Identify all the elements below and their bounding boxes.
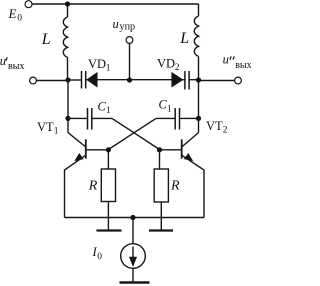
ground bar bottom [120,281,150,284]
wire right base to resistor [159,150,161,169]
node u_upr junction [127,77,132,82]
node right tank [196,77,201,82]
svg-text:VD: VD [157,57,175,71]
node left base [106,147,111,152]
node: coil tap junction on top rail [65,1,70,6]
svg-text:VD: VD [88,57,106,71]
wire cross diagonal left-to-right [112,118,160,149]
varicap VD1 [68,79,81,81]
inductor L (left) [63,17,67,57]
wire source to ground [132,268,134,282]
svg-text:0: 0 [97,252,102,262]
node left C1 junction [65,116,70,121]
wire right coil to tank node [198,56,200,80]
terminal E0 [25,1,32,8]
svg-text:1: 1 [106,64,111,74]
node I0 tap [130,215,135,220]
wire right tank to terminal [199,80,235,82]
wire emitter rail [65,217,205,219]
wire left vertical collector feed [67,80,69,133]
wire top rail [32,3,199,5]
wire left resistor to ground [107,202,109,231]
transistor VT1 [85,139,87,158]
wire u_upr down [129,43,131,80]
terminal u_upr [126,37,133,44]
svg-text:вых: вых [8,61,24,72]
wire cross diagonal right-to-left [108,118,156,149]
svg-text:1: 1 [167,105,172,115]
node right C1 junction [196,116,201,121]
svg-text:VT: VT [37,120,54,134]
capacitor C1 (left) [68,117,87,119]
ground bar left [97,229,122,231]
resistor R (left) [101,169,115,202]
svg-text:VT: VT [206,119,223,133]
inductor L (right) [194,16,198,56]
transistor VT2 [181,139,183,158]
wire u'_vyh to left tank node [36,80,68,82]
svg-text:R: R [170,178,180,193]
svg-text:1: 1 [106,106,111,116]
wire coil to tank node [67,57,69,80]
svg-text:R: R [88,179,98,194]
svg-text:упр: упр [120,22,136,33]
wire right resistor to ground [160,202,162,231]
capacitor C1 (right) [180,117,198,119]
terminal u'_vyh [30,77,37,84]
wire left base to resistor [107,150,109,169]
svg-text:u: u [223,53,229,67]
svg-text:u: u [0,54,6,68]
svg-text:0: 0 [17,14,22,24]
current source I0 [121,244,146,269]
varicap VD2 [130,79,172,81]
wire right coil feed [198,4,200,16]
svg-text:u: u [113,17,119,31]
wire right vertical collector feed [198,80,200,133]
wire rail to current source [132,218,134,244]
node left tank [65,77,70,82]
resistor R (right) [154,169,168,202]
ground bar right [149,229,173,231]
wire left coil feed [67,4,69,17]
svg-text:L: L [179,30,189,47]
svg-text:вых: вых [235,60,251,71]
node right base [157,147,162,152]
svg-text:L: L [41,31,51,48]
svg-text:E: E [8,6,17,21]
terminal u''_vyh [235,77,242,84]
svg-text:2: 2 [223,126,228,136]
svg-text:1: 1 [54,127,59,137]
svg-text:2: 2 [175,63,180,73]
